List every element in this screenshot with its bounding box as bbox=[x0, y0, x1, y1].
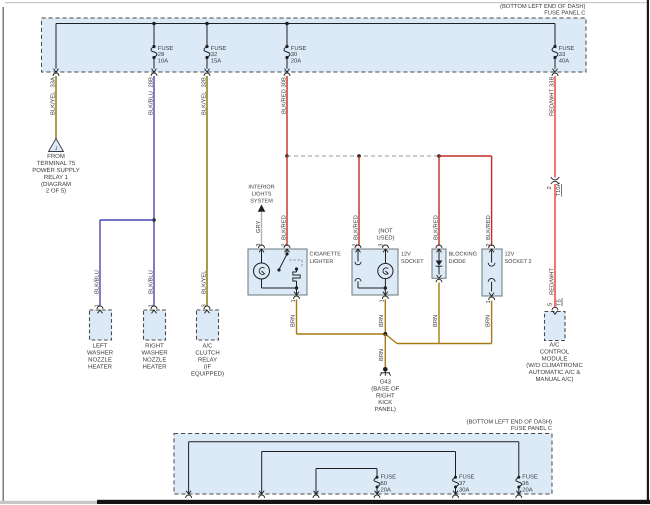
pin out bottom left inner bbox=[314, 491, 319, 494]
svg-text:NOZZLE: NOZZLE bbox=[143, 357, 167, 364]
svg-text:INTERIOR: INTERIOR bbox=[248, 185, 274, 191]
svg-text:LIGHTER: LIGHTER bbox=[310, 259, 334, 265]
svg-text:FUSE: FUSE bbox=[381, 474, 397, 481]
pin out bottom left outer bbox=[186, 491, 191, 494]
svg-text:33B: 33B bbox=[548, 77, 555, 87]
svg-text:KICK: KICK bbox=[378, 399, 392, 406]
svg-text:A/C: A/C bbox=[202, 343, 213, 350]
fuse 30 20A bbox=[284, 24, 306, 69]
svg-text:RIGHT: RIGHT bbox=[145, 343, 164, 350]
svg-text:BLK/RED: BLK/RED bbox=[352, 215, 359, 240]
wire BLK/BLU 28B vertical bbox=[153, 76, 155, 306]
svg-text:BLK/YEL: BLK/YEL bbox=[49, 91, 56, 115]
svg-text:(BOTTOM LEFT END OF DASH): (BOTTOM LEFT END OF DASH) bbox=[467, 418, 553, 425]
svg-text:G43: G43 bbox=[380, 379, 392, 386]
blocking diode box bbox=[432, 249, 446, 278]
outer bus loop bbox=[189, 442, 519, 493]
pin in left washer heater bbox=[97, 306, 103, 309]
pin out fuse 28 bbox=[152, 69, 157, 72]
svg-text:36: 36 bbox=[522, 480, 528, 487]
svg-text:WASHER: WASHER bbox=[141, 350, 168, 357]
svg-text:LIGHTS: LIGHTS bbox=[252, 191, 272, 197]
svg-text:BRN: BRN bbox=[486, 315, 492, 327]
text cigarette lighter bbox=[310, 252, 342, 266]
junction BLK/RED at cigarette lighter branch bbox=[285, 154, 289, 158]
svg-text:20A: 20A bbox=[381, 487, 391, 494]
svg-text:NOZZLE: NOZZLE bbox=[88, 357, 112, 364]
wire BLK/YEL 32B bbox=[206, 76, 208, 306]
middle bus loop bbox=[262, 452, 456, 494]
svg-text:A/C: A/C bbox=[549, 342, 560, 349]
label BLK/YEL 33A bbox=[49, 77, 56, 115]
svg-text:20A: 20A bbox=[291, 57, 301, 64]
pin in blocking diode top bbox=[436, 245, 442, 248]
fuse panel C header (top) bbox=[500, 3, 586, 16]
fuse 33 40A bbox=[552, 24, 574, 69]
svg-text:RED/WHT: RED/WHT bbox=[548, 88, 555, 116]
svg-text:SYSTEM: SYSTEM bbox=[250, 198, 273, 204]
svg-text:BLK/BLU: BLK/BLU bbox=[93, 270, 100, 294]
svg-text:FUSE PANEL C: FUSE PANEL C bbox=[511, 425, 552, 432]
svg-text:BLOCKING: BLOCKING bbox=[449, 252, 477, 258]
svg-text:BRN: BRN bbox=[379, 349, 385, 361]
pin out fuse 37 bbox=[453, 491, 458, 494]
svg-text:28B: 28B bbox=[147, 77, 154, 87]
svg-text:BLK/YEL: BLK/YEL bbox=[200, 91, 207, 115]
svg-text:TERMINAL 75: TERMINAL 75 bbox=[37, 160, 76, 167]
junction on bus at fuse 32 bbox=[205, 22, 209, 26]
inline connector T10A bbox=[551, 177, 559, 184]
fuse 36 20A bbox=[516, 474, 538, 494]
fuse 60 20A bbox=[374, 474, 396, 494]
pin out 12v socket 2 pin 1 bbox=[489, 293, 494, 296]
window top border bbox=[5, 2, 648, 3]
svg-text:30: 30 bbox=[291, 51, 297, 58]
12v socket 2 box bbox=[482, 249, 502, 296]
pin out 12v socket pin 1 bbox=[383, 292, 388, 295]
pin in cigarette lighter pin 3 bbox=[259, 245, 265, 248]
wire RED/WHT 33B upper bbox=[554, 76, 556, 178]
svg-text:BLK/YEL: BLK/YEL bbox=[200, 270, 207, 294]
svg-text:USED): USED) bbox=[376, 235, 394, 242]
svg-text:FUSE: FUSE bbox=[158, 45, 174, 52]
svg-text:WASHER: WASHER bbox=[87, 350, 114, 357]
svg-text:FUSE: FUSE bbox=[522, 474, 538, 481]
svg-text:(DIAGRAM: (DIAGRAM bbox=[41, 181, 71, 188]
svg-text:(BASE OF: (BASE OF bbox=[371, 385, 399, 392]
svg-text:HEATER: HEATER bbox=[88, 364, 113, 371]
svg-text:(IF: (IF bbox=[204, 364, 212, 371]
svg-text:BLK/RED: BLK/RED bbox=[280, 89, 287, 114]
svg-text:FROM: FROM bbox=[47, 153, 65, 160]
pin out fuse 30 bbox=[285, 69, 290, 72]
label BLK/YEL 32B bbox=[200, 77, 207, 115]
switch linkage dashed bbox=[290, 260, 303, 267]
svg-text:10A: 10A bbox=[158, 57, 168, 64]
svg-text:12V: 12V bbox=[505, 252, 515, 258]
svg-text:(NOT: (NOT bbox=[378, 228, 393, 235]
svg-text:FUSE: FUSE bbox=[211, 45, 227, 52]
a/c control module box bbox=[545, 312, 566, 341]
wire BLK/BLU branch to left washer nozzle heater bbox=[100, 220, 154, 306]
arrow to interior lights system bbox=[258, 205, 266, 212]
diode symbol bbox=[436, 249, 443, 275]
wire BRN from blocking diode bbox=[438, 283, 440, 344]
label BLK/BLU 28B bbox=[147, 77, 154, 115]
svg-text:30A: 30A bbox=[459, 487, 469, 494]
svg-text:LEFT: LEFT bbox=[93, 343, 108, 350]
stub pin not used bbox=[383, 245, 389, 248]
svg-text:2 OF 5): 2 OF 5) bbox=[46, 188, 66, 195]
pin out cigarette lighter pin 1 bbox=[294, 292, 299, 295]
dashed option line bbox=[287, 155, 439, 157]
svg-text:RELAY 1: RELAY 1 bbox=[44, 174, 69, 181]
pin out bottom left middle bbox=[259, 491, 264, 494]
window right border bbox=[647, 0, 649, 501]
ground G43 symbol bbox=[380, 367, 391, 376]
12v socket box bbox=[352, 249, 398, 295]
wire BRN to ground bbox=[384, 334, 386, 367]
wire RED/WHT lower bbox=[554, 184, 556, 307]
a/c clutch relay box bbox=[197, 310, 219, 340]
svg-text:HEATER: HEATER bbox=[143, 364, 168, 371]
wire GRY bbox=[261, 212, 263, 246]
svg-text:CONTROL: CONTROL bbox=[540, 348, 570, 355]
fuse panel C header (bottom) bbox=[467, 418, 553, 432]
wire BLK/RED 30B upper bbox=[286, 76, 288, 156]
internal wire cigarette lighter bottom bbox=[262, 287, 297, 289]
svg-text:PANEL): PANEL) bbox=[375, 406, 396, 413]
junction BLK/BLU branch bbox=[152, 218, 156, 222]
wire BRN from 12v socket 2 bbox=[385, 301, 491, 344]
svg-text:(BOTTOM LEFT END OF DASH): (BOTTOM LEFT END OF DASH) bbox=[500, 3, 586, 10]
lamp in 12v socket bbox=[378, 249, 393, 288]
text 12v socket 2 bbox=[505, 252, 532, 266]
svg-text:GRY: GRY bbox=[255, 220, 262, 233]
left washer nozzle heater box bbox=[90, 310, 112, 340]
svg-text:33: 33 bbox=[559, 51, 565, 58]
wire BRN from 12v socket bbox=[384, 300, 386, 335]
pin out 33A bbox=[54, 69, 59, 72]
svg-text:32: 32 bbox=[211, 51, 217, 58]
pin in 12v socket pin 2 bbox=[355, 245, 361, 248]
svg-text:MODULE: MODULE bbox=[542, 355, 568, 362]
svg-text:15A: 15A bbox=[211, 58, 221, 64]
window left border bbox=[3, 7, 4, 501]
svg-text:SOCKET: SOCKET bbox=[401, 259, 424, 265]
svg-text:28: 28 bbox=[158, 51, 164, 58]
svg-text:BLK/RED: BLK/RED bbox=[485, 215, 492, 240]
pin out fuse 32 bbox=[205, 69, 210, 72]
label RED/WHT 33B bbox=[548, 77, 555, 116]
pin out fuse 36 bbox=[516, 491, 521, 494]
junction BRN bus bbox=[383, 332, 387, 336]
switch in cigarette lighter bbox=[277, 249, 288, 272]
pin in cigarette lighter pin 2 bbox=[284, 245, 290, 248]
svg-text:60: 60 bbox=[381, 480, 387, 487]
svg-text:BLK/BLU: BLK/BLU bbox=[147, 91, 154, 115]
svg-text:BRN: BRN bbox=[290, 315, 296, 327]
right washer nozzle heater box bbox=[144, 310, 166, 340]
svg-text:12V: 12V bbox=[401, 252, 411, 258]
svg-text:CIGARETTE: CIGARETTE bbox=[310, 252, 342, 258]
bus wire in fuse panel bbox=[56, 23, 555, 25]
svg-text:BLK/BLU: BLK/BLU bbox=[147, 270, 154, 294]
fuse 32 15A bbox=[204, 24, 226, 69]
svg-text:BLK/RED: BLK/RED bbox=[280, 215, 287, 240]
cigarette lighter box bbox=[248, 249, 307, 295]
svg-text:EQUIPPED): EQUIPPED) bbox=[191, 371, 224, 378]
lamp in cigarette lighter bbox=[254, 249, 270, 288]
junction BLK/RED at 12v socket branch bbox=[357, 154, 361, 158]
fuse 28 10A bbox=[151, 24, 173, 69]
socket contact lower bbox=[355, 278, 361, 288]
fuse panel C box (top) bbox=[42, 18, 587, 72]
svg-text:BLK/RED: BLK/RED bbox=[432, 215, 439, 240]
svg-text:SOCKET 2: SOCKET 2 bbox=[505, 259, 532, 265]
label T5 connector bbox=[557, 298, 563, 306]
junction cigarette lighter bottom bbox=[295, 286, 298, 289]
text not used bbox=[376, 228, 394, 242]
wire BRN from cigarette lighter bbox=[297, 300, 386, 335]
fuse 37 30A bbox=[453, 474, 475, 494]
socket contact upper bbox=[355, 249, 361, 265]
svg-text:FUSE: FUSE bbox=[459, 474, 475, 481]
wire BLK/RED to 12v socket 2 bbox=[439, 156, 492, 246]
svg-text:30B: 30B bbox=[280, 77, 287, 87]
junction on bus at fuse 28 bbox=[152, 22, 156, 26]
pin in right washer heater bbox=[151, 306, 157, 309]
wire BLK/RED to cigarette lighter bbox=[286, 156, 288, 246]
wire BLK/RED to 12v socket bbox=[358, 156, 360, 246]
junction on bus at fuse 30 bbox=[285, 22, 289, 26]
pin in a/c clutch relay bbox=[204, 306, 210, 309]
label BLK/RED 30B bbox=[280, 77, 287, 114]
pin out fuse 33 bbox=[553, 69, 558, 72]
socket 2 contact upper bbox=[488, 249, 495, 266]
svg-text:(W/O CLIMATRONIC: (W/O CLIMATRONIC bbox=[526, 362, 583, 369]
svg-text:32B: 32B bbox=[200, 77, 207, 87]
junction BLK/RED at blocking diode branch bbox=[437, 154, 441, 158]
socket 2 contact lower bbox=[488, 278, 495, 291]
junction 12v socket bottom bbox=[384, 286, 387, 289]
svg-text:FUSE PANEL C: FUSE PANEL C bbox=[544, 9, 585, 16]
wire BLK/RED to blocking diode bbox=[438, 156, 440, 246]
svg-text:POWER SUPPLY: POWER SUPPLY bbox=[32, 167, 80, 174]
svg-text:FUSE: FUSE bbox=[291, 45, 307, 52]
heating element in cigarette lighter bbox=[293, 267, 300, 288]
svg-text:37: 37 bbox=[459, 480, 465, 487]
svg-text:5: 5 bbox=[547, 303, 553, 306]
svg-text:MANUAL A/C): MANUAL A/C) bbox=[535, 376, 573, 383]
svg-text:RELAY: RELAY bbox=[198, 357, 217, 364]
text 12v socket bbox=[401, 252, 424, 266]
fuse panel C box (bottom) bbox=[174, 434, 552, 495]
svg-text:BRN: BRN bbox=[379, 315, 385, 327]
pin out fuse 60 bbox=[375, 491, 380, 494]
svg-text:33A: 33A bbox=[49, 77, 56, 87]
pin out blocking diode bottom bbox=[437, 275, 442, 278]
svg-text:RED/WHT: RED/WHT bbox=[548, 267, 555, 295]
svg-text:RIGHT: RIGHT bbox=[376, 392, 395, 399]
inner bus loop bbox=[316, 469, 377, 494]
svg-text:CLUTCH: CLUTCH bbox=[195, 350, 219, 357]
window bottom bar bbox=[97, 500, 650, 504]
svg-text:FUSE: FUSE bbox=[559, 45, 575, 52]
pin in a/c control module bbox=[552, 307, 558, 314]
bus drop to 33A output bbox=[55, 24, 57, 69]
text blocking diode bbox=[449, 252, 477, 266]
label T10A bbox=[555, 183, 562, 197]
svg-text:40A: 40A bbox=[559, 57, 569, 64]
svg-text:20A: 20A bbox=[522, 487, 532, 494]
wire BLK/YEL 33A bbox=[55, 76, 57, 139]
svg-text:AUTOMATIC A/C &: AUTOMATIC A/C & bbox=[529, 369, 581, 376]
svg-text:BRN: BRN bbox=[433, 315, 439, 327]
svg-text:2: 2 bbox=[546, 186, 553, 189]
internal wire 12v socket bottom bbox=[358, 287, 385, 289]
off-page connector triangle A bbox=[49, 139, 64, 152]
pin in 12v socket 2 top bbox=[489, 245, 495, 248]
svg-text:DIODE: DIODE bbox=[449, 259, 467, 265]
